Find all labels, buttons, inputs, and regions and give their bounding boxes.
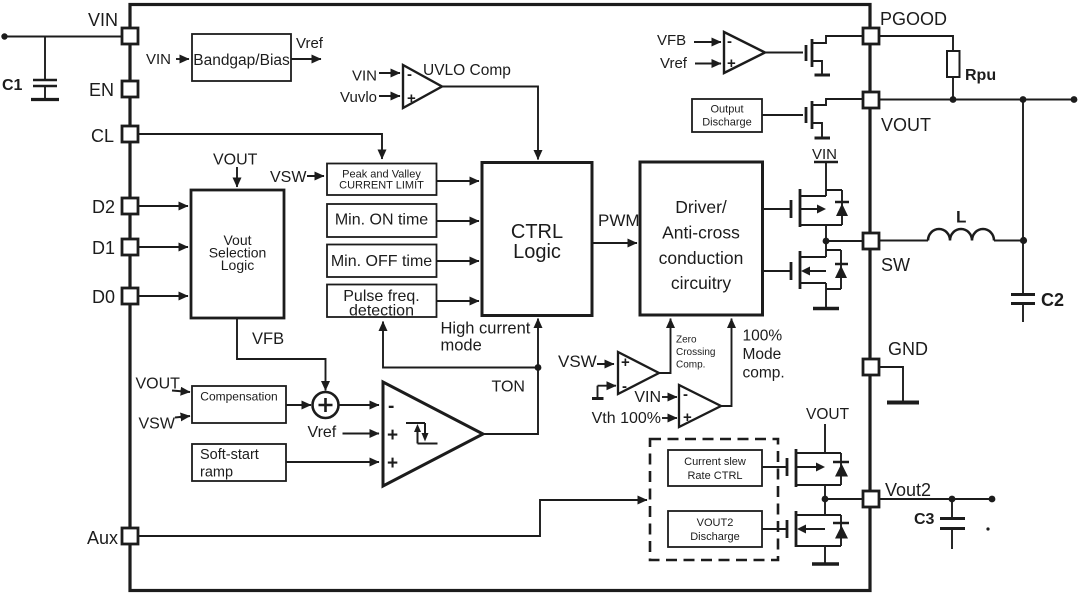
svg-text:PGOOD: PGOOD [880, 9, 947, 29]
svg-text:Vref: Vref [296, 35, 324, 52]
svg-text:TON: TON [492, 379, 525, 396]
svg-text:Logic: Logic [221, 257, 254, 273]
svg-text:Driver/: Driver/ [675, 197, 727, 217]
svg-text:mode: mode [441, 337, 482, 355]
svg-text:+: + [407, 90, 416, 107]
svg-text:Min. ON time: Min. ON time [335, 212, 428, 229]
svg-text:Zero: Zero [676, 335, 697, 346]
svg-text:VIN: VIN [352, 68, 377, 85]
svg-text:-: - [683, 386, 688, 403]
svg-text:VSW: VSW [139, 416, 176, 433]
svg-text:VOUT: VOUT [881, 115, 931, 135]
svg-text:High current: High current [441, 320, 531, 338]
svg-text:VFB: VFB [657, 32, 686, 49]
svg-text:D0: D0 [92, 287, 115, 307]
svg-text:CTRL: CTRL [511, 221, 563, 243]
svg-text:Mode: Mode [743, 346, 782, 363]
svg-text:C1: C1 [2, 77, 23, 94]
svg-text:Discharge: Discharge [702, 117, 752, 129]
svg-text:Vuvlo: Vuvlo [340, 89, 377, 106]
svg-text:Vref: Vref [308, 424, 337, 441]
svg-text:D1: D1 [92, 238, 115, 258]
svg-text:Comp.: Comp. [676, 360, 705, 371]
svg-text:-: - [727, 33, 732, 50]
svg-text:GND: GND [888, 339, 928, 359]
svg-text:+: + [621, 354, 630, 371]
svg-text:detection: detection [349, 303, 414, 320]
svg-text:Rpu: Rpu [965, 67, 996, 84]
svg-text:CURRENT LIMIT: CURRENT LIMIT [339, 180, 424, 192]
svg-text:-: - [622, 378, 627, 395]
svg-text:Anti-cross: Anti-cross [662, 223, 740, 243]
svg-text:VIN: VIN [634, 389, 661, 406]
svg-text:Vth 100%: Vth 100% [592, 410, 661, 427]
svg-text:Compensation: Compensation [200, 390, 277, 404]
svg-text:CL: CL [91, 126, 114, 146]
svg-text:Crossing: Crossing [676, 347, 715, 358]
svg-text:+: + [387, 425, 398, 446]
svg-text:VIN: VIN [146, 51, 171, 68]
svg-text:VIN: VIN [812, 146, 837, 163]
svg-text:VOUT: VOUT [806, 406, 850, 423]
svg-text:Rate CTRL: Rate CTRL [687, 470, 742, 482]
svg-text:C2: C2 [1041, 290, 1064, 310]
svg-text:-: - [407, 66, 412, 83]
svg-text:VSW: VSW [558, 352, 597, 371]
svg-text:Min. OFF time: Min. OFF time [331, 253, 432, 270]
svg-text:L: L [956, 208, 966, 227]
svg-text:Discharge: Discharge [690, 531, 740, 543]
svg-text:100%: 100% [743, 328, 783, 345]
svg-text:Aux: Aux [87, 528, 118, 548]
svg-text:VOUT: VOUT [213, 152, 258, 169]
svg-text:PWM: PWM [598, 211, 640, 230]
svg-text:VSW: VSW [270, 169, 307, 186]
svg-text:C3: C3 [914, 511, 935, 528]
svg-text:SW: SW [881, 255, 910, 275]
svg-text:Bandgap/Bias: Bandgap/Bias [193, 52, 290, 69]
svg-text:Current slew: Current slew [684, 456, 746, 468]
svg-text:+: + [387, 453, 398, 474]
svg-text:VOUT2: VOUT2 [697, 517, 734, 529]
svg-text:D2: D2 [92, 197, 115, 217]
svg-text:Vout2: Vout2 [885, 480, 931, 500]
svg-text:circuitry: circuitry [671, 273, 732, 293]
svg-text:ramp: ramp [200, 465, 233, 481]
svg-text:UVLO Comp: UVLO Comp [423, 62, 511, 79]
svg-text:conduction: conduction [659, 248, 744, 268]
svg-text:Vref: Vref [660, 55, 688, 72]
svg-text:+: + [683, 409, 692, 426]
svg-text:+: + [727, 55, 736, 72]
svg-text:comp.: comp. [743, 365, 785, 382]
svg-text:VIN: VIN [88, 10, 118, 30]
svg-text:-: - [388, 396, 394, 417]
svg-text:EN: EN [89, 80, 114, 100]
svg-text:VFB: VFB [252, 330, 284, 348]
svg-text:Logic: Logic [513, 241, 561, 263]
svg-text:Output: Output [710, 104, 743, 116]
svg-text:VOUT: VOUT [136, 376, 181, 393]
svg-text:Soft-start: Soft-start [200, 447, 259, 463]
